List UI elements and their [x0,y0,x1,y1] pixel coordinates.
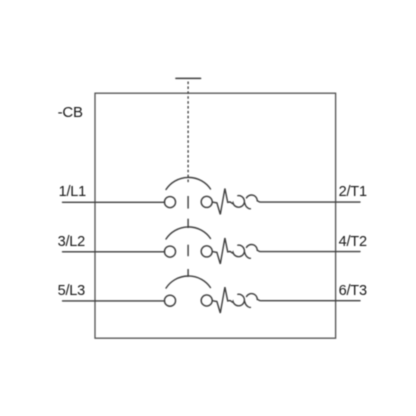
circuit-breaker contact arc, pole L2 [166,227,211,239]
contact fixed terminal circle (right), pole L3 [201,295,212,306]
wire: left terminal stub L2 [63,251,165,253]
operating handle bar [176,77,201,79]
magnetic overcurrent release (coil loops), pole L3 [230,294,360,308]
wire: left terminal stub L3 [63,300,165,302]
terminal label 6/T3 [339,284,367,299]
terminal label 4/T2 [339,235,367,250]
linkage dash in pole 2 contact gap [187,245,189,257]
linkage dash above pole 3 arc [187,269,189,277]
contact fixed terminal circle (right), pole L2 [201,246,212,257]
thermal overload release (zigzag), pole L2 [213,238,230,264]
wire: left terminal stub L1 [63,201,165,203]
terminal label 1/L1 [59,185,86,200]
mechanical linkage dashed line (upper dotted section) [187,82,189,185]
contact fixed terminal circle (left), pole L2 [164,246,175,257]
terminal label 3/L2 [58,235,85,250]
thermal overload release (zigzag), pole L1 [213,189,230,215]
linkage dash above pole 2 arc [187,219,189,228]
contact fixed terminal circle (left), pole L3 [164,295,175,306]
linkage dash in pole 1 contact gap [187,196,189,209]
contact fixed terminal circle (right), pole L1 [201,196,212,207]
magnetic overcurrent release (coil loops), pole L1 [230,195,360,209]
magnetic overcurrent release (coil loops), pole L2 [230,245,360,259]
device designator label -CB [58,105,83,120]
thermal overload release (zigzag), pole L3 [213,287,230,313]
terminal label 5/L3 [58,284,85,299]
contact fixed terminal circle (left), pole L1 [164,197,175,208]
circuit-breaker contact arc, pole L1 [166,177,211,189]
terminal label 2/T1 [339,185,367,200]
circuit-breaker contact arc, pole L3 [166,276,211,288]
circuit breaker -CB enclosure box [95,93,336,338]
